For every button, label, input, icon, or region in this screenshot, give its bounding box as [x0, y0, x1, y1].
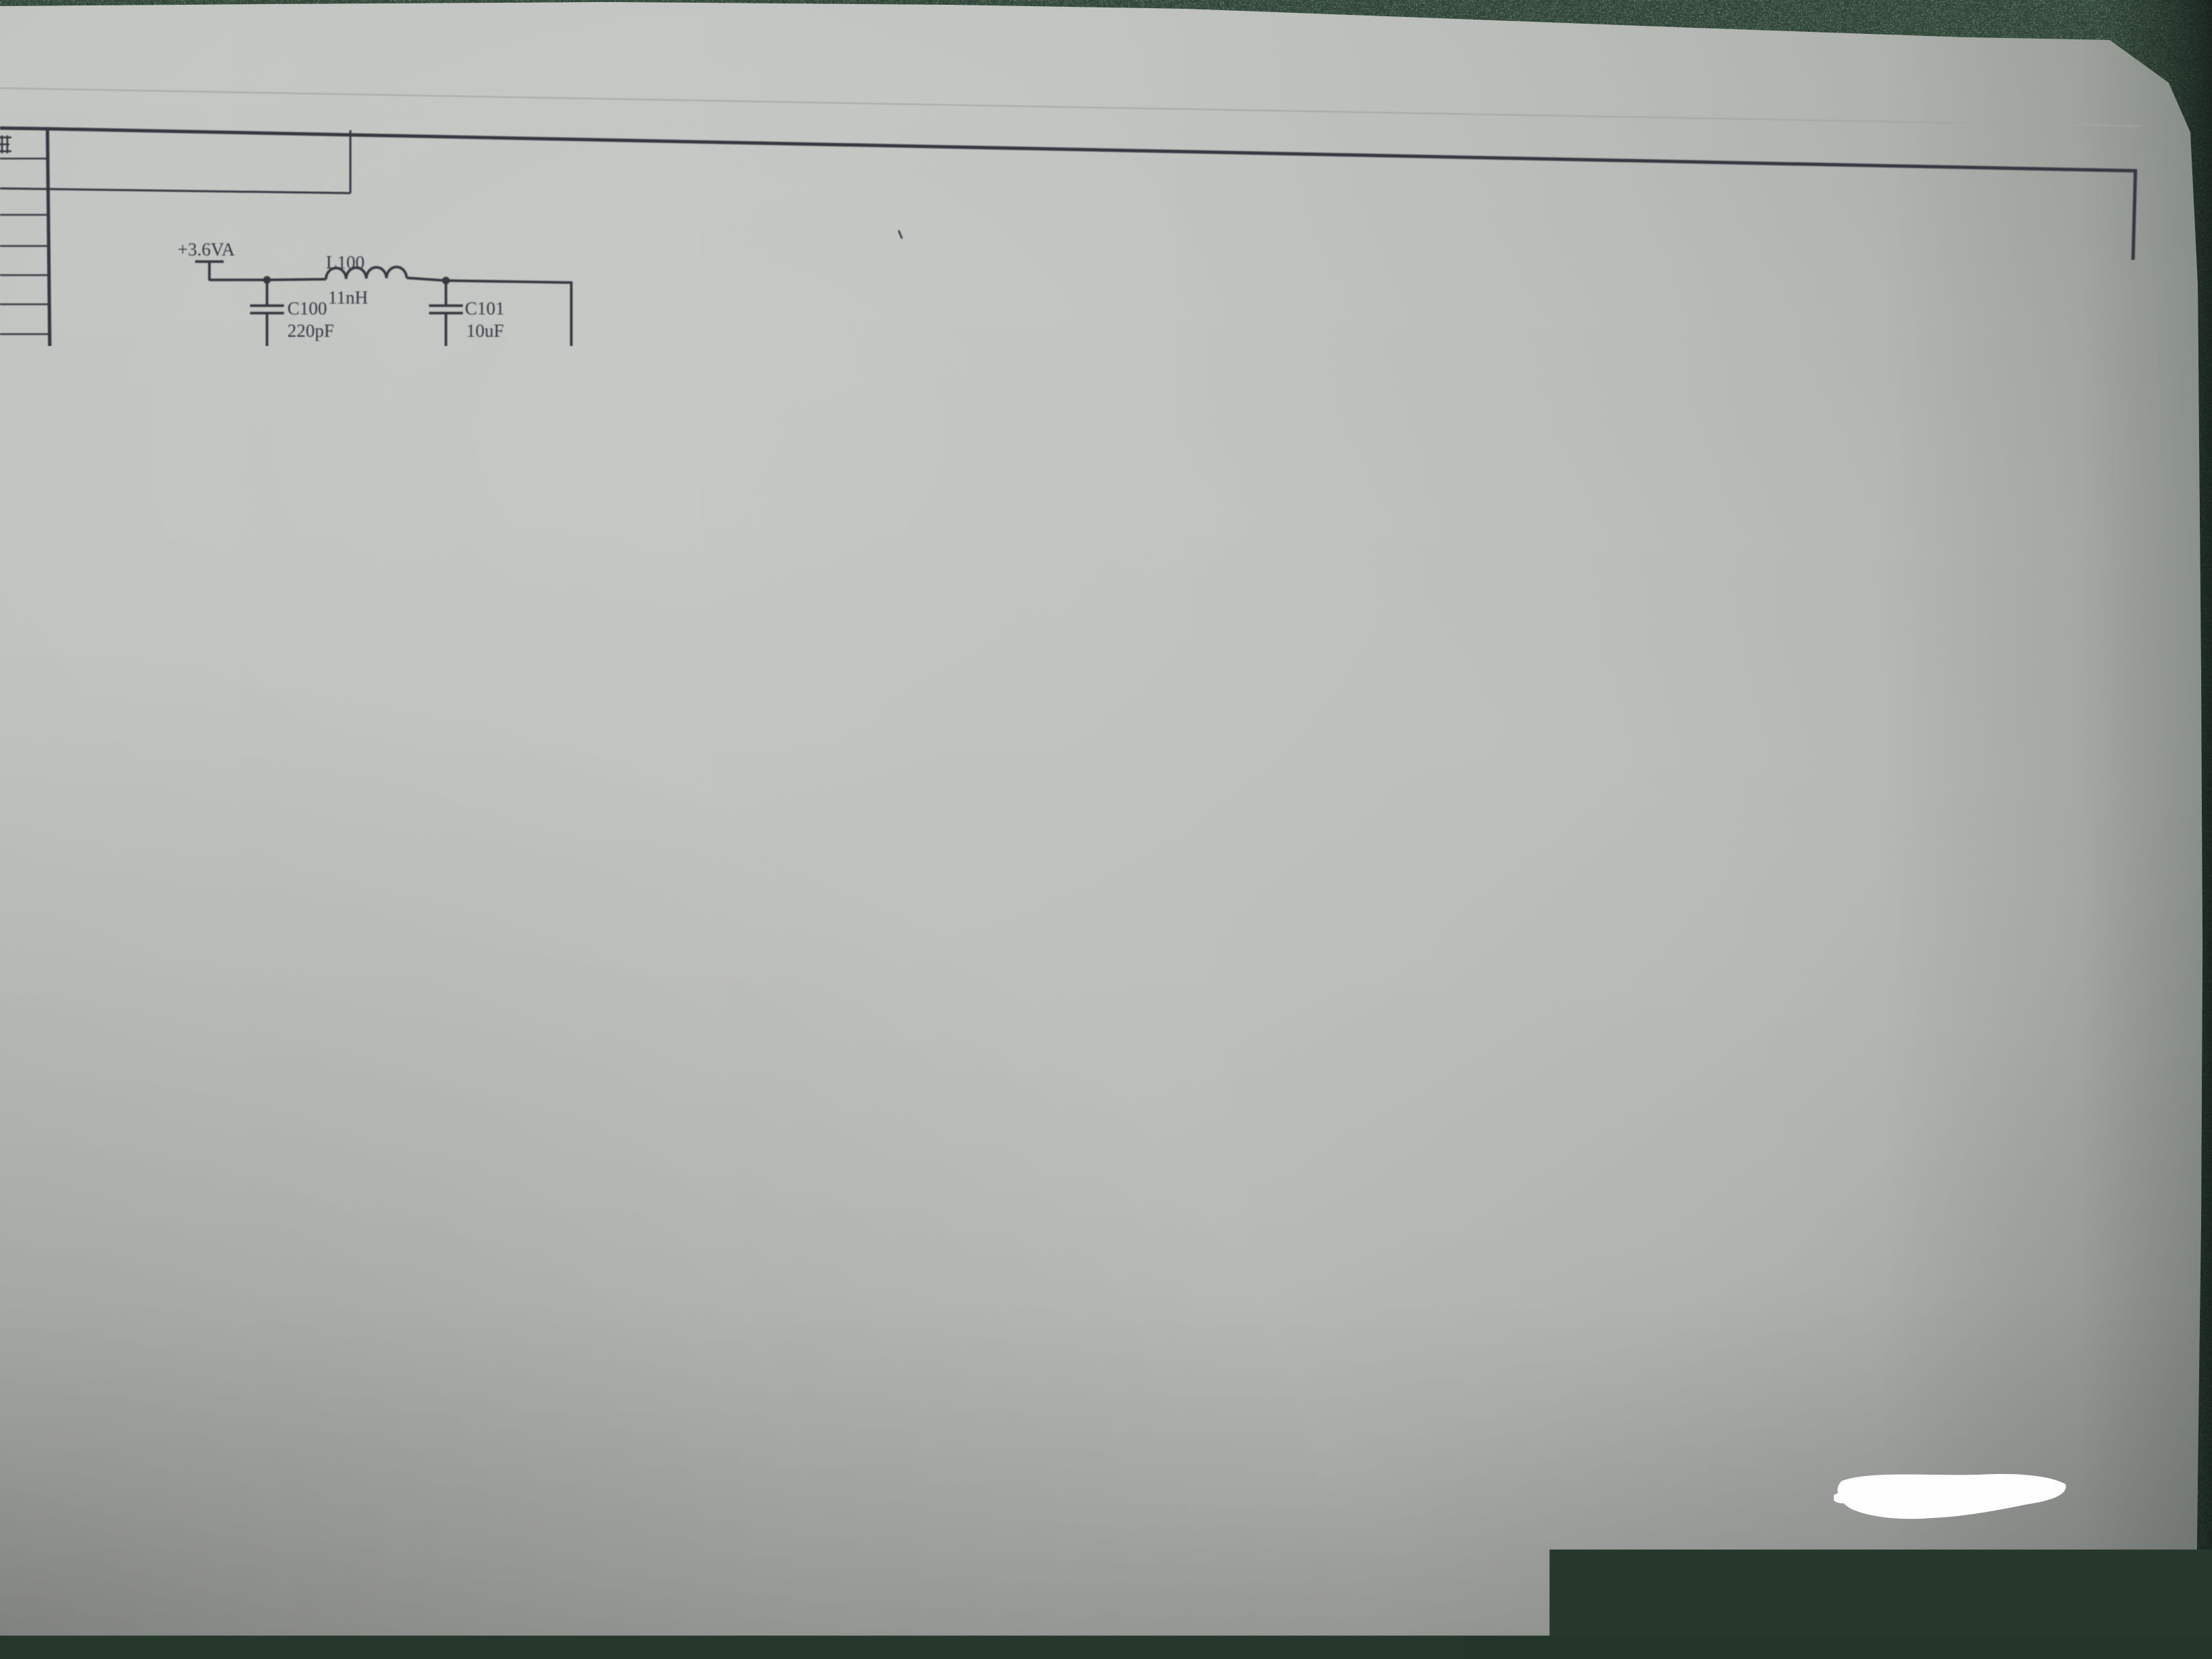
capacitor C113 15pF: [1657, 725, 1660, 748]
inductor L105 10nH: [1195, 722, 1241, 723]
handwritten letter A: [1328, 752, 1345, 781]
wire L101 row to supply rail node: [571, 424, 1095, 434]
resistor R101 10K: [994, 869, 996, 1019]
ground for C104: [628, 504, 668, 523]
ground for C101: [426, 361, 466, 380]
wire HGM to pin6: [965, 944, 1069, 945]
capacitor C110 2.2pF (series, parallel path): [1371, 723, 1411, 726]
ground pins 1/3: [977, 529, 1017, 548]
wire riser to PA_L / VDD_PA pins: [730, 426, 807, 661]
left margin label 签字 2: [12, 1454, 28, 1470]
IC N100 CC1190RGVT body: [807, 606, 999, 797]
capacitor C104 33pF: [647, 426, 649, 453]
white-out blob: [1838, 1474, 2066, 1519]
left margin label 总号: [1, 1372, 17, 1388]
ground for C115: [537, 811, 577, 829]
connector RF1 tag: [137, 722, 253, 738]
supply node column: [1094, 434, 1097, 453]
left margin label 签 (cropped): [0, 136, 12, 153]
wire TR_SW pin4 to C108 output: [999, 701, 1147, 723]
inductor L108 8.2nH: [253, 730, 417, 733]
wire L100 to C101 node: [407, 278, 446, 281]
wire C108 to C109: [1105, 722, 1181, 724]
node C103 junction: [367, 417, 374, 424]
ground for C103: [351, 504, 390, 523]
left margin form boxes: [0, 158, 48, 160]
resistor R103 10K: [1069, 943, 1126, 946]
capacitor C100 220pF: [266, 280, 268, 306]
ground pins 12/9: [712, 818, 751, 837]
wire C111 to RF2: [1885, 726, 1958, 728]
handwritten letter B: [1982, 769, 2004, 811]
handwritten circle at RF2: [1954, 716, 1976, 747]
wire L104 out to C112 node: [1487, 724, 1504, 725]
capacitor C103 18pF: [369, 421, 372, 451]
ground for R102: [1030, 1094, 1069, 1113]
wire LNA_EN to pin7: [965, 906, 1050, 907]
wire LNA_OUT pin10 link: [687, 735, 807, 755]
wire L102/L103 node down to PA_OUT row: [1092, 609, 1095, 666]
capacitor C112 5.6pF: [1503, 725, 1506, 750]
capacitor C101 10uF: [445, 281, 447, 306]
inductor L106 2.2nH: [1504, 724, 1543, 726]
wire L105 to node A: [1317, 724, 1324, 724]
resistor R102 10K: [1048, 907, 1051, 1019]
wire C101 node to right, down to L101 row: [446, 281, 571, 424]
inductor L104 2.2nH (parallel top): [1371, 670, 1393, 724]
wire LNA_IN pin5: [999, 721, 1090, 722]
title block texts: [1099, 1303, 1114, 1318]
capacitor C107 5.6pF (series): [1208, 610, 1244, 611]
title block: [1095, 1206, 1097, 1519]
ground pin17: [784, 529, 823, 548]
wire pin9 stub: [731, 774, 807, 777]
wire L108 to PA+IN pin11: [496, 734, 807, 737]
ground for C113: [1639, 799, 1678, 818]
node A circle (hand drawn): [1324, 711, 1345, 738]
wire pin12/pin9 GND tie: [731, 718, 807, 817]
capacitor C105 47pF: [1168, 454, 1171, 480]
ground for C112: [1485, 799, 1524, 818]
ground for C114: [1793, 799, 1832, 818]
ground for C102: [1152, 417, 1191, 436]
wire pin1/pin3 GND loop: [999, 644, 1028, 682]
wire R103 to +3.6VA: [1164, 893, 1218, 945]
left margin label 签字: [5, 1126, 22, 1142]
ground for R101: [975, 1094, 1015, 1113]
off-page arrow (TX): [1258, 610, 1299, 613]
inductor L107 3.9nH: [1658, 724, 1698, 726]
capacitor C115 2.7pF: [556, 734, 558, 760]
node L103 tee: [1090, 605, 1097, 612]
wire power to C100 node: [209, 279, 267, 281]
connector LNA_EN: [845, 897, 965, 916]
connector RF2 tag: [1984, 719, 2107, 736]
stray tick mark: [899, 230, 902, 239]
capacitor C102 1uF and loop: [1095, 336, 1172, 434]
sheet zone divider: [0, 188, 350, 193]
wire PA_OUT pin2 to node A: [999, 663, 1339, 711]
capacitor C114 9.1pF: [1811, 726, 1814, 749]
wire PA_EN to pin8: [965, 778, 1033, 869]
capacitor C109 12pF (series): [1184, 707, 1187, 739]
wire to C105/C106: [1095, 453, 1264, 455]
left margin label 图总号: [0, 1289, 6, 1303]
wire L101 row left vertical (to VDD_LNA): [312, 421, 807, 699]
capacitor C108 12pF (series): [1094, 707, 1097, 739]
ground for C105: [1150, 533, 1189, 552]
capacitor C111 47pF (series): [1812, 726, 1876, 726]
faint outer sheet border: [0, 88, 2142, 126]
capacitor C106 1000pF: [1263, 455, 1265, 480]
ground for C100: [247, 361, 287, 380]
wire pin17 GND loop: [768, 508, 807, 623]
connector HGM: [845, 935, 965, 954]
wire PA_L pin 16 stub: [730, 640, 807, 643]
ground for C106: [1244, 533, 1284, 552]
inductor L102 15nH: [1094, 453, 1097, 474]
wire node A to L104 section: [1345, 723, 1371, 726]
connector PA_EN: [845, 861, 965, 879]
